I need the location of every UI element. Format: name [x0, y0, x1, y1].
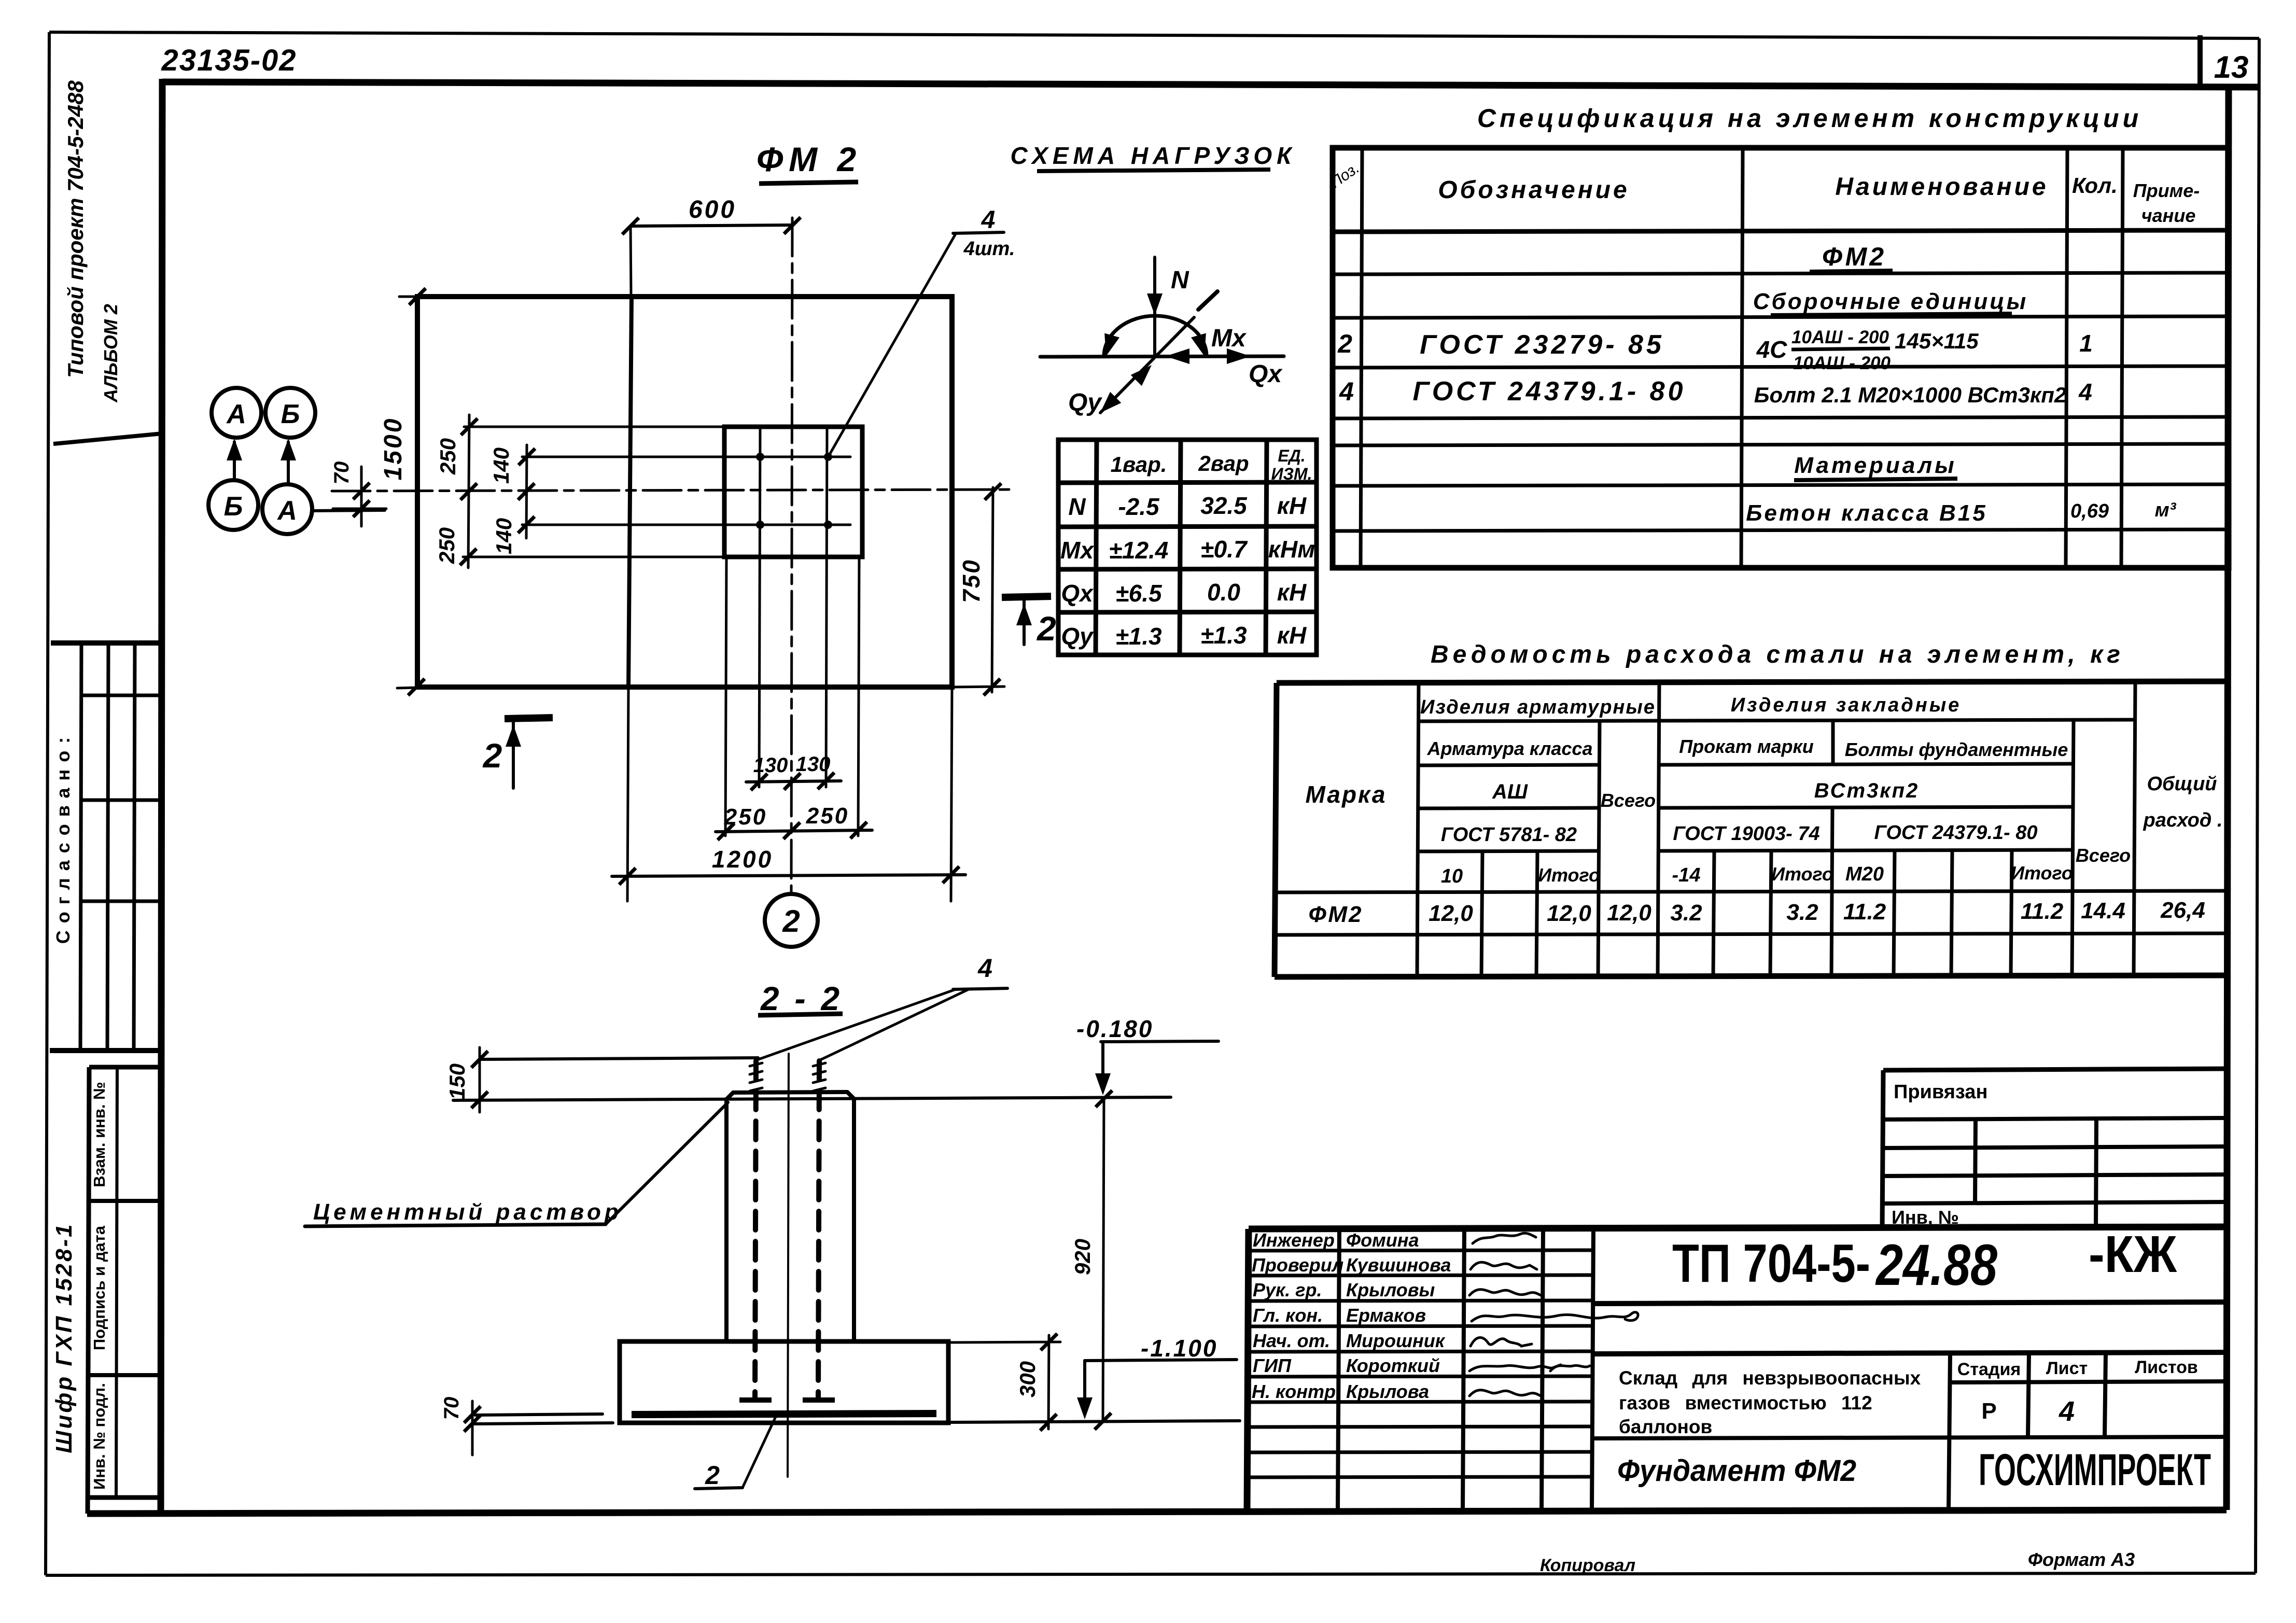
dimension 1500 (left, vertical)	[380, 288, 426, 695]
axis Qx line	[1040, 348, 1284, 388]
sidebar stamp block border	[88, 1067, 162, 1514]
svg-text:Qх: Qх	[1249, 360, 1283, 388]
spec table column lines	[1361, 148, 2123, 568]
svg-text:750: 750	[958, 558, 985, 603]
dimension 300 (right of slab)	[948, 1334, 1060, 1431]
dimension 1200 (bottom)	[612, 846, 965, 885]
svg-text:10: 10	[1441, 865, 1463, 887]
svg-text:ФМ 2: ФМ 2	[757, 140, 861, 178]
svg-text:10АШ - 200: 10АШ - 200	[1793, 353, 1891, 373]
svg-text:ФМ2: ФМ2	[1308, 902, 1363, 927]
separator under empty band	[1593, 1352, 2228, 1354]
steel table outer border	[1275, 681, 2229, 977]
plate edge extension lines (down)	[725, 557, 859, 836]
svg-text:Н. контр.: Н. контр.	[1252, 1381, 1341, 1402]
svg-text:Б: Б	[281, 399, 300, 429]
svg-text:Фомина: Фомина	[1346, 1229, 1419, 1251]
svg-text:250: 250	[435, 527, 459, 564]
Согласовано table row lines	[80, 695, 162, 901]
svg-text:13: 13	[2214, 50, 2249, 85]
embedded mesh bar (item 2)	[632, 1414, 936, 1415]
svg-text:0.0: 0.0	[1207, 579, 1240, 606]
svg-text:кН: кН	[1277, 622, 1307, 649]
svg-text:250: 250	[436, 438, 460, 475]
svg-text:150: 150	[445, 1064, 469, 1100]
dimension 70 (bottom left)	[440, 1397, 481, 1455]
svg-text:кН: кН	[1277, 579, 1307, 606]
leader 4 (section bolts)	[757, 954, 1007, 1060]
svg-text:Мирошник: Мирошник	[1346, 1330, 1446, 1351]
plate edge extension lines (left)	[463, 427, 724, 557]
svg-text:Согласовано:: Согласовано:	[52, 730, 74, 944]
svg-text:1500: 1500	[380, 417, 407, 481]
svg-text:-14: -14	[1672, 864, 1701, 886]
svg-text:А: А	[226, 399, 246, 429]
svg-text:N: N	[1171, 267, 1189, 294]
mortar level line	[453, 1097, 1171, 1100]
svg-text:0,69: 0,69	[2070, 500, 2109, 522]
dimension 750 (right, vertical)	[958, 483, 1001, 695]
svg-text:Формат А3: Формат А3	[2028, 1549, 2135, 1570]
svg-text:14.4: 14.4	[2081, 898, 2125, 924]
svg-text:СХЕМА НАГРУЗОК: СХЕМА НАГРУЗОК	[1011, 142, 1296, 169]
section title underline	[758, 1014, 843, 1015]
svg-text:АЛЬБОМ 2: АЛЬБОМ 2	[100, 304, 121, 403]
svg-text:ГОСТ 24379.1- 80: ГОСТ 24379.1- 80	[1412, 376, 1686, 407]
ground line right of slab	[948, 1421, 1240, 1422]
svg-text:4: 4	[977, 954, 992, 983]
svg-text:ТП 704-5-: ТП 704-5-	[1672, 1234, 1870, 1294]
svg-text:-КЖ: -КЖ	[2089, 1225, 2177, 1283]
mini table border	[1882, 1069, 2229, 1230]
svg-text:Спецификация на элемент: Спецификация на элемент конструкции	[1477, 104, 2142, 133]
svg-text:Материалы: Материалы	[1794, 453, 1956, 478]
svg-text:Листов: Листов	[2135, 1358, 2198, 1377]
svg-text:23135-02: 23135-02	[161, 44, 297, 77]
svg-text:Взам. инв. №: Взам. инв. №	[90, 1082, 108, 1187]
svg-text:Рук. гр.: Рук. гр.	[1253, 1279, 1322, 1300]
svg-text:ГОСТ 23279- 85: ГОСТ 23279- 85	[1420, 330, 1664, 360]
svg-text:4шт.: 4шт.	[963, 238, 1015, 260]
svg-text:12,0: 12,0	[1547, 901, 1591, 926]
steel table verticals	[1417, 681, 2135, 976]
spec table header bottom line	[1333, 230, 2229, 232]
svg-text:ГОСТ 19003- 74: ГОСТ 19003- 74	[1673, 823, 1819, 845]
svg-text:ГОСТ 5781- 82: ГОСТ 5781- 82	[1441, 824, 1577, 846]
svg-text:Мх: Мх	[1211, 325, 1247, 352]
svg-text:Общий: Общий	[2147, 773, 2217, 795]
svg-text:10АШ - 200: 10АШ - 200	[1791, 327, 1889, 347]
svg-text:±6.5: ±6.5	[1115, 580, 1163, 607]
section centerline	[788, 1054, 789, 1477]
dimension 150 (left of section)	[445, 1047, 488, 1112]
svg-text:кН: кН	[1277, 492, 1307, 519]
svg-text:Фундамент ФМ2: Фундамент ФМ2	[1617, 1454, 1856, 1488]
slab edge extension lines for dims	[397, 297, 1004, 688]
svg-text:32.5: 32.5	[1200, 492, 1248, 519]
svg-text:Ведомость расхода стали: Ведомость расхода стали на элемент, кг	[1431, 641, 2124, 668]
svg-text:Сборочные единицы: Сборочные единицы	[1753, 289, 2028, 314]
svg-text:130: 130	[796, 753, 831, 776]
svg-text:70: 70	[330, 461, 353, 485]
svg-text:Шифр ГХП 1528-1: Шифр ГХП 1528-1	[51, 1222, 77, 1453]
svg-text:145×115: 145×115	[1895, 329, 1979, 353]
foundation slab outline (plan)	[417, 297, 952, 687]
svg-text:250: 250	[724, 804, 767, 830]
load table grid	[1058, 440, 1317, 655]
vertical centerline (plan)	[791, 218, 792, 892]
svg-text:кНм: кНм	[1268, 536, 1315, 563]
level mark -1.100	[1077, 1335, 1237, 1419]
anchor bolts (plan, 4 dots)	[756, 453, 832, 529]
svg-text:газов вместимостью 112: газов вместимостью 112	[1619, 1392, 1872, 1414]
svg-text:расход .: расход .	[2143, 809, 2223, 831]
svg-text:11.2: 11.2	[1843, 899, 1886, 925]
svg-text:Цементный раствор: Цементный раствор	[313, 1199, 622, 1225]
svg-text:26,4: 26,4	[2160, 898, 2205, 923]
svg-text:Стадия: Стадия	[1957, 1360, 2021, 1379]
svg-text:-2.5: -2.5	[1118, 493, 1160, 520]
svg-text:Крыловы: Крыловы	[1346, 1279, 1435, 1300]
svg-text:4: 4	[2078, 379, 2092, 405]
svg-text:ГИП: ГИП	[1253, 1355, 1292, 1376]
bolt column lines	[759, 427, 827, 787]
force N arrow	[1147, 257, 1189, 356]
svg-text:Ермаков: Ермаков	[1346, 1305, 1426, 1326]
svg-text:Типовой проект 704-5-2488: Типовой проект 704-5-2488	[63, 80, 88, 377]
stamp block row lines	[88, 1201, 162, 1375]
svg-text:Инженер: Инженер	[1253, 1229, 1335, 1251]
spec table outer border	[1333, 148, 2229, 568]
mini table rows	[1882, 1118, 2229, 1204]
anchor bolt left (section, dashed)	[739, 1061, 772, 1400]
svg-text:4: 4	[1339, 377, 1354, 406]
label Цементный раствор	[305, 1102, 728, 1226]
svg-text:Инв. № подл.: Инв. № подл.	[90, 1383, 108, 1490]
svg-text:Всего: Всего	[2076, 845, 2131, 866]
dimension 130/130 (below plan)	[746, 753, 841, 790]
bolt row lines	[522, 457, 850, 525]
svg-text:ГОСХИМПРОЕКТ: ГОСХИМПРОЕКТ	[1979, 1445, 2211, 1495]
svg-text:Qу: Qу	[1061, 623, 1094, 650]
svg-text:140: 140	[489, 447, 513, 484]
svg-text:24.88: 24.88	[1875, 1233, 1997, 1297]
dimension 600 (top)	[622, 196, 801, 297]
svg-text:АШ: АШ	[1492, 780, 1528, 803]
svg-text:Мх: Мх	[1060, 537, 1095, 564]
svg-text:Итого: Итого	[2011, 862, 2073, 884]
svg-text:3.2: 3.2	[1786, 900, 1818, 925]
bolt top reference line	[480, 1058, 758, 1059]
svg-text:130: 130	[753, 754, 788, 777]
svg-text:Копировал: Копировал	[1540, 1556, 1635, 1575]
signature table rows	[1247, 1250, 1593, 1477]
svg-text:Склад для невзрывоопасных: Склад для невзрывоопасных	[1619, 1367, 1921, 1389]
svg-text:М20: М20	[1845, 863, 1884, 885]
force Qy diagonal	[1068, 291, 1217, 418]
svg-text:600: 600	[689, 196, 736, 223]
anchor plate outline (plan)	[724, 427, 862, 557]
svg-text:м³: м³	[2155, 499, 2177, 521]
svg-text:ФМ2: ФМ2	[1822, 242, 1886, 271]
leader 4 / 4шт (plan)	[829, 206, 1015, 455]
svg-text:Нач. от.: Нач. от.	[1253, 1330, 1330, 1351]
svg-text:3.2: 3.2	[1670, 900, 1702, 926]
svg-text:Итого: Итого	[1771, 863, 1833, 885]
svg-text:ЕД.: ЕД.	[1278, 446, 1305, 465]
dimension 250/250 (inner left, vertical)	[435, 415, 478, 568]
svg-text:2: 2	[705, 1461, 720, 1490]
svg-text:250: 250	[806, 803, 849, 829]
pedestal left extension below	[627, 687, 628, 901]
svg-text:4С: 4С	[1756, 336, 1788, 363]
dimension 920 (right, vertical)	[1070, 1090, 1112, 1430]
horizontal centerline (plan)	[332, 489, 1016, 491]
moment Mx arc	[1099, 316, 1247, 358]
pedestal (section)	[726, 1092, 854, 1341]
стадия grid rows	[1593, 1381, 2228, 1438]
svg-text:Короткий: Короткий	[1346, 1355, 1440, 1376]
svg-text:Проверил: Проверил	[1252, 1254, 1343, 1276]
svg-text:Болты фундаментные: Болты фундаментные	[1845, 739, 2068, 760]
schema title underline	[1037, 170, 1270, 171]
svg-text:2вар: 2вар	[1198, 451, 1249, 475]
svg-text:Лист: Лист	[2046, 1359, 2088, 1378]
svg-text:Qх: Qх	[1061, 580, 1094, 607]
svg-text:12,0: 12,0	[1429, 901, 1473, 926]
svg-text:±1.3: ±1.3	[1115, 623, 1162, 650]
svg-text:Прокат марки: Прокат марки	[1679, 736, 1813, 757]
svg-text:11.2: 11.2	[2021, 899, 2064, 924]
foundation slab (section)	[620, 1341, 948, 1423]
page number box	[2197, 35, 2203, 86]
svg-text:баллонов: баллонов	[1619, 1416, 1712, 1437]
svg-text:Гл. кон.: Гл. кон.	[1253, 1305, 1323, 1326]
mini table columns	[1975, 1118, 2096, 1229]
column grid circles А Б (plan left)	[208, 388, 385, 534]
sidebar slanted divider	[53, 433, 162, 444]
Согласовано table verticals	[80, 643, 135, 1051]
svg-text:Приме-: Приме-	[2133, 180, 2200, 201]
dimension 250/250 (below plan)	[716, 803, 872, 840]
svg-text:Изделия арматурные: Изделия арматурные	[1420, 696, 1656, 718]
svg-text:Подпись и дата: Подпись и дата	[90, 1225, 108, 1350]
Согласовано table top line	[51, 640, 162, 646]
project number box line	[1593, 1302, 2228, 1304]
plan title underline	[759, 182, 858, 184]
anchor bolt right (section, dashed)	[803, 1061, 835, 1400]
svg-text:4: 4	[2059, 1396, 2075, 1427]
svg-text:Марка: Марка	[1305, 781, 1387, 808]
svg-text:Арматура класса: Арматура класса	[1427, 738, 1593, 759]
svg-text:Qу: Qу	[1068, 389, 1102, 416]
svg-text:1200: 1200	[712, 846, 773, 873]
svg-text:ГОСТ 24379.1- 80: ГОСТ 24379.1- 80	[1874, 822, 2038, 844]
svg-text:Болт 2.1 М20×1000 ВСт3кп2: Болт 2.1 М20×1000 ВСт3кп2	[1754, 383, 2067, 407]
level mark -0.180	[1076, 1015, 1219, 1095]
svg-text:Всего: Всего	[1601, 790, 1656, 811]
title block left border	[1247, 1229, 1249, 1511]
svg-text:4: 4	[981, 206, 996, 234]
dimension 70 (left of plan)	[330, 461, 386, 526]
svg-text:Кол.: Кол.	[2072, 173, 2118, 198]
svg-text:70: 70	[440, 1397, 463, 1420]
svg-text:ВСт3кп2: ВСт3кп2	[1814, 779, 1920, 802]
spec table row lines	[1332, 273, 2229, 531]
svg-text:±12.4: ±12.4	[1109, 537, 1169, 564]
pedestal right / slab right extension below	[951, 687, 952, 901]
svg-text:ИЗМ.: ИЗМ.	[1271, 465, 1312, 483]
svg-text:чание: чание	[2141, 205, 2196, 226]
object description Склад для невзрывоопасных газов	[1619, 1367, 1921, 1437]
svg-text:1вар.: 1вар.	[1111, 452, 1167, 477]
svg-text:Изделия закладные: Изделия закладные	[1731, 694, 1962, 716]
steel table horizontals	[1275, 720, 2228, 935]
svg-text:-0.180: -0.180	[1076, 1015, 1153, 1042]
svg-text:Итого: Итого	[1538, 864, 1600, 886]
svg-text:N: N	[1068, 493, 1086, 520]
svg-text:Обозначение: Обозначение	[1438, 176, 1629, 204]
svg-text:Бетон класса В15: Бетон класса В15	[1746, 500, 1987, 526]
svg-text:±1.3: ±1.3	[1200, 622, 1247, 649]
svg-text:2: 2	[1036, 609, 1056, 648]
reference lines left of slab	[475, 1414, 603, 1415]
section mark 2 (right)	[1002, 596, 1056, 648]
pedestal left edge in plan	[628, 297, 632, 687]
svg-text:Б: Б	[224, 492, 243, 522]
svg-text:140: 140	[492, 518, 516, 554]
title block top border	[1249, 1227, 2229, 1229]
svg-text:2: 2	[1337, 329, 1352, 358]
axis circle 2 (below plan)	[765, 894, 818, 947]
Согласовано table bottom line	[50, 1048, 162, 1053]
svg-text:2: 2	[482, 736, 502, 775]
svg-text:12,0: 12,0	[1607, 900, 1651, 926]
стадия grid verticals	[1949, 1353, 2106, 1510]
svg-text:-1.100: -1.100	[1141, 1335, 1217, 1362]
section mark 2 (left)	[482, 718, 553, 788]
signature table columns	[1338, 1227, 1593, 1510]
svg-text:300: 300	[1015, 1361, 1040, 1397]
svg-text:Наименование: Наименование	[1835, 173, 2048, 201]
dimension 140/140 (inner, vertical)	[489, 445, 535, 554]
svg-text:А: А	[276, 496, 297, 526]
leader 2 (mesh item)	[695, 1416, 776, 1490]
svg-text:Привязан: Привязан	[1894, 1081, 1987, 1103]
svg-text:920: 920	[1070, 1239, 1095, 1275]
svg-text:1: 1	[2079, 330, 2093, 357]
stamp block label divider	[116, 1067, 117, 1498]
svg-text:2: 2	[782, 904, 800, 939]
svg-text:Кувшинова: Кувшинова	[1346, 1254, 1451, 1276]
svg-text:Крылова: Крылова	[1346, 1381, 1429, 1402]
svg-text:±0.7: ±0.7	[1200, 536, 1248, 563]
svg-text:Р: Р	[1981, 1398, 1996, 1424]
